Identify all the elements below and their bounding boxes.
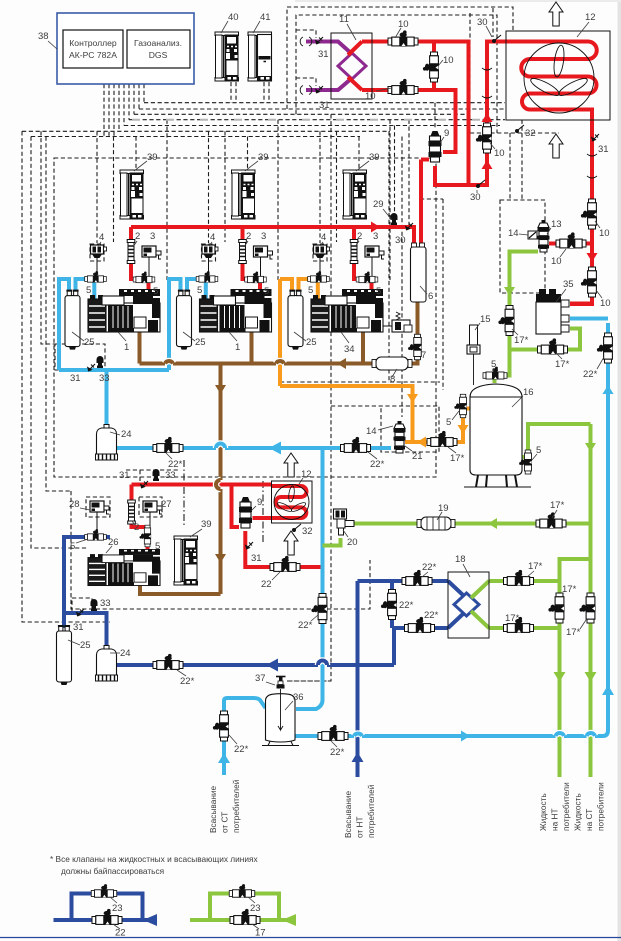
sensor 32 condenser [515, 125, 536, 139]
gas analyzer DGS box [127, 30, 190, 68]
svg-text:Всасывание: Всасывание [208, 785, 218, 833]
wire drop mid B [401, 137, 403, 418]
svg-text:25: 25 [306, 337, 317, 348]
filter drier 19 [417, 503, 455, 530]
oil valve 7 [408, 334, 426, 361]
svg-text:25: 25 [195, 337, 206, 348]
arrow blue right lower main [461, 731, 470, 742]
arrow red up x487 b [482, 160, 493, 169]
svg-text:13: 13 [551, 219, 562, 230]
svg-text:22*: 22* [583, 369, 598, 380]
ball valve 22* injection line [341, 437, 385, 470]
pipe g1 discharge [131, 227, 149, 296]
sensor 29 discharge header [373, 199, 398, 225]
svg-text:19: 19 [438, 503, 449, 514]
navy ball valve 22* [153, 654, 195, 687]
svg-text:17*: 17* [528, 561, 543, 572]
svg-text:5: 5 [86, 285, 91, 296]
pipe LT riser [132, 485, 148, 550]
svg-text:4: 4 [210, 232, 215, 243]
svg-text:22*: 22* [330, 747, 345, 758]
navy valve 22* hx18 bottom [405, 610, 439, 633]
svg-text:17*: 17* [550, 500, 565, 511]
compressor 1 [88, 289, 160, 353]
svg-text:40: 40 [228, 12, 239, 23]
svg-text:Жидкость: Жидкость [573, 793, 583, 831]
arrow brown left header [337, 358, 346, 369]
svg-text:26: 26 [108, 537, 119, 548]
arrow green left drier [488, 518, 497, 529]
svg-text:35: 35 [563, 279, 574, 290]
pipe g3 suction riser [280, 279, 292, 386]
wire drop mid C [408, 120, 410, 226]
pipe orange rcvr branch [405, 409, 470, 443]
svg-text:33: 33 [99, 373, 110, 384]
BROWN pipes [140, 301, 418, 594]
pipe drier line [355, 522, 591, 526]
svg-text:1: 1 [235, 342, 240, 353]
green valve 17* hx18 bottom [504, 613, 534, 633]
wire drop mid A [389, 131, 440, 382]
svg-text:потребителей: потребителей [366, 784, 376, 838]
svg-text:30: 30 [470, 192, 481, 203]
wire controller drop 1 [103, 84, 105, 137]
svg-text:33: 33 [100, 598, 111, 609]
svg-text:33: 33 [165, 470, 176, 481]
flow arrows on pipes [215, 113, 614, 763]
wire bus line 1 [144, 102, 505, 104]
LT header solenoid 33 [153, 469, 176, 481]
wire drop g3 psw [389, 120, 391, 280]
svg-text:6: 6 [428, 291, 433, 302]
VFD 39 group1 [120, 152, 158, 219]
wire vessel37 stub [287, 680, 331, 682]
LT pressure switch 28 [69, 499, 109, 532]
oil reservoir 24 MT [96, 425, 132, 461]
arrow green down inj [504, 287, 515, 296]
green valve 17* hx18 top [504, 561, 543, 586]
ball valve 22* MT suction main [153, 437, 183, 470]
pipe hx18 top green [489, 579, 560, 583]
svg-text:38: 38 [38, 31, 49, 42]
sensor 30 lower [470, 180, 485, 203]
ball valve 10 hx11 bottom [365, 79, 418, 102]
svg-text:10: 10 [600, 298, 611, 309]
svg-text:23: 23 [112, 903, 123, 914]
arrow green down x590 [585, 443, 596, 452]
pipes get drawn before components [59, 42, 614, 778]
svg-text:31: 31 [318, 49, 329, 60]
svg-text:25: 25 [80, 640, 91, 651]
wire drop g2 sol4 [202, 131, 216, 261]
suction valve 5 g2 [196, 271, 218, 296]
pipe hx18 top line [358, 579, 449, 583]
arrow green down b [585, 672, 597, 682]
svg-text:22*: 22* [399, 600, 414, 611]
LT header sensor 31 [119, 470, 148, 489]
RED pipes [131, 42, 597, 568]
vibration absorber 2 g3 [350, 231, 362, 264]
pipe MT suction main [114, 446, 391, 450]
blue valve 22* ct riser [213, 711, 249, 755]
svg-text:39: 39 [201, 519, 212, 530]
pipe purple top [306, 42, 352, 55]
pipe LT discharge header [132, 483, 272, 487]
svg-text:потребители: потребители [561, 782, 571, 831]
wire drop to MT vfd3 [358, 137, 360, 171]
wire controller drop 4 [118, 84, 120, 131]
svg-text:31: 31 [598, 144, 609, 155]
wire drop g2 psw [277, 120, 279, 280]
svg-text:31: 31 [70, 373, 81, 384]
wire drop mid D [394, 126, 396, 214]
wire controller drop 7 [133, 84, 135, 114]
arrow orange down x412 [407, 394, 418, 403]
suction valve 5 g1 [85, 271, 107, 296]
heat exchanger 35 [536, 279, 574, 334]
sensor 31 purple bottom [315, 86, 330, 111]
wire controller drop 3 [113, 84, 115, 137]
ball valve 10 vertical x434 [423, 52, 454, 82]
pipe chk9 bypass [232, 485, 240, 528]
sight glass 15 [467, 314, 491, 385]
arrow blue left main [269, 442, 281, 455]
wire controller drop 6 [128, 84, 130, 120]
svg-text:18: 18 [455, 554, 466, 565]
wire bus line 4 [129, 119, 505, 121]
svg-text:21: 21 [412, 451, 423, 462]
receiver 16 [464, 384, 534, 487]
wire VFD40 leads [231, 82, 236, 103]
controller cabinet box [38, 13, 194, 84]
svg-text:3: 3 [261, 231, 266, 242]
svg-text:22*: 22* [298, 620, 313, 631]
svg-text:9: 9 [444, 128, 449, 139]
svg-text:5: 5 [264, 286, 269, 297]
pipe HX11 top red [348, 42, 490, 186]
pipe g3 discharge [354, 227, 372, 296]
wire LT dashdot [183, 460, 185, 527]
arrow red header right [371, 222, 380, 233]
condenser 12 [506, 12, 610, 120]
pipe oil g3 stub [361, 324, 365, 364]
liquid separator 36 [262, 689, 304, 746]
svg-text:31: 31 [119, 470, 130, 481]
arrow brown down2 [215, 554, 226, 563]
svg-text:АК-РС 782А: АК-РС 782А [69, 50, 117, 60]
detail valve 22 navy [92, 909, 126, 939]
solenoid 33 suction header [97, 356, 110, 384]
solenoid valve 4 g1 [91, 232, 107, 274]
svg-text:2: 2 [134, 522, 139, 533]
arrow orange down x461 [458, 425, 469, 434]
svg-text:22*: 22* [168, 459, 183, 470]
bridge brown over orange [276, 361, 284, 363]
fan blades [529, 45, 589, 99]
pipe bridges [165, 361, 595, 736]
heat exchanger 11 box [331, 14, 372, 99]
bridge brown over blue g2 [165, 361, 173, 363]
wire controller drop 9 [143, 84, 145, 103]
detail valve 23 navy [91, 884, 122, 914]
VFD 39 group2 [232, 152, 269, 219]
pipe chk9 lower [245, 531, 322, 567]
pressure switch 3 g3 [365, 231, 384, 277]
svg-text:17*: 17* [514, 335, 529, 346]
wire left drop C [41, 131, 55, 344]
svg-text:27: 27 [161, 499, 172, 510]
wire rack enclosure [54, 158, 436, 477]
svg-text:22*: 22* [234, 744, 249, 755]
check valve 9 main [429, 128, 450, 162]
svg-text:17*: 17* [555, 359, 570, 370]
expansion valve 13 [538, 219, 562, 252]
wire drop g1 sol4 [90, 131, 104, 261]
pipe vessel36 out [295, 323, 608, 736]
arrow blue up x608 a [603, 385, 614, 394]
svg-text:41: 41 [260, 12, 271, 23]
svg-text:потребителей: потребителей [231, 779, 241, 833]
liquid out valve 5 receiver right [519, 445, 541, 474]
ball valve 17* vertical x509 [498, 306, 528, 347]
pipe 13 outlet [501, 252, 538, 376]
ball valve 10 vertical upper x592 [581, 199, 610, 239]
ball valve 10 vertical x487 [476, 123, 505, 159]
check valve 9 LT [239, 497, 262, 528]
green valve 17* vert right [566, 593, 596, 638]
svg-text:7: 7 [421, 350, 426, 361]
arrow orange left into21 [417, 437, 426, 448]
svg-text:на НТ: на НТ [550, 808, 560, 831]
sensor 31 purple top [315, 37, 329, 60]
pipe g1 acc out [76, 279, 87, 295]
svg-text:5: 5 [153, 286, 158, 297]
pipe orange header [280, 386, 413, 442]
suction accumulator 25 g3 [288, 290, 317, 350]
suction valve 5 g3 [308, 271, 330, 296]
bridge blue over green2 [587, 733, 596, 736]
svg-text:34: 34 [344, 344, 355, 355]
wire bus line 6 [22, 130, 390, 132]
svg-text:потребители: потребители [596, 782, 606, 831]
svg-text:37: 37 [255, 673, 266, 684]
suction accumulator 25 g1 [65, 290, 95, 350]
bridge blue over green1 [556, 733, 565, 736]
discharge valve 5 g2 [245, 272, 270, 297]
pipe break x487 [482, 68, 492, 98]
svg-text:15: 15 [480, 314, 491, 325]
detail green piping [190, 894, 296, 921]
hx18 navy diamond [454, 593, 479, 616]
svg-text:Контроллер: Контроллер [69, 38, 117, 48]
oil return valve 5 orange [446, 394, 467, 428]
pipe g1 comp in [94, 279, 103, 299]
oil filter 8 [372, 357, 412, 385]
pipe LT suction valve run [64, 537, 107, 649]
wire bus line 7 [31, 136, 360, 138]
wire bus line 5 [124, 125, 500, 127]
pressure switch 3 g1 [142, 231, 161, 277]
pipe nt main [117, 663, 394, 667]
pipe subcool branch [510, 329, 581, 350]
pipe hx18 bottom green [489, 626, 560, 630]
VFD drive 40 [215, 12, 239, 81]
pipe oil LT drop [140, 364, 221, 595]
arrow brown down [215, 385, 226, 394]
nt liquid label [538, 782, 571, 831]
wire controller drop 5 [123, 84, 125, 126]
ball valve 17* subcool branch [538, 338, 570, 370]
pipe oil g2 stub [250, 324, 254, 364]
pipe hx35 red stub [570, 296, 592, 304]
green valve 17* vert left [548, 584, 576, 623]
svg-text:23: 23 [250, 903, 261, 914]
sensor 31 suction header [70, 364, 95, 384]
hx18 green diagonals [471, 581, 489, 628]
pipe nt riser [356, 581, 360, 777]
svg-text:10: 10 [365, 91, 376, 102]
svg-text:36: 36 [293, 692, 304, 703]
svg-text:11: 11 [339, 14, 349, 25]
pipe liquid link [560, 559, 591, 777]
heat exchanger 18 box [448, 554, 489, 638]
svg-text:16: 16 [523, 387, 534, 398]
svg-text:22*: 22* [424, 610, 439, 621]
svg-text:5: 5 [155, 541, 160, 552]
svg-text:28: 28 [69, 499, 80, 510]
svg-text:30: 30 [395, 235, 406, 246]
ball valve 22* vertical x608 [583, 333, 613, 380]
bridge blue over navy [354, 734, 362, 736]
svg-text:39: 39 [147, 152, 158, 163]
ball valve 10 vertical lower x592 [581, 267, 611, 309]
pipe MT suction header [59, 370, 169, 429]
wire top right inner loop [296, 15, 497, 133]
wire left drop D [46, 137, 71, 492]
bridge brown over LT red [216, 480, 221, 489]
pipe g3 acc out [299, 279, 310, 295]
suction accumulator 25 g2 [177, 290, 206, 350]
LT VFD 39 [174, 519, 212, 585]
svg-text:10: 10 [599, 228, 610, 239]
svg-text:3: 3 [373, 231, 378, 242]
GREEN pipes [323, 252, 591, 778]
vibration absorber 2 g1 [127, 231, 140, 264]
LT pressure switch 27 [143, 499, 172, 528]
svg-text:2: 2 [135, 231, 140, 242]
PURPLE pipes (HX11 inlet) [306, 42, 352, 91]
solenoid valve 4 g2 [202, 232, 218, 274]
svg-text:5: 5 [70, 541, 75, 552]
pipe oil header [140, 324, 373, 364]
svg-text:31: 31 [319, 100, 330, 111]
gray dashed wire [132, 119, 505, 121]
navy valve 22* hx18 top [402, 562, 437, 586]
svg-text:14: 14 [508, 228, 519, 239]
svg-text:5: 5 [197, 285, 202, 296]
svg-text:10: 10 [551, 256, 562, 267]
discharge valve 5 g3 [356, 272, 381, 297]
compressor 34 [311, 289, 383, 355]
ct liquid label [573, 782, 606, 831]
svg-text:* Все клапаны на жидкостных и: * Все клапаны на жидкостных и всасывающи… [50, 854, 258, 864]
nt suction label [343, 784, 376, 838]
svg-text:24: 24 [121, 429, 132, 440]
sensor 32 coil [292, 524, 313, 537]
wire controller drop 2 [108, 84, 110, 137]
detail navy piping [54, 894, 158, 921]
svg-text:Всасывание: Всасывание [343, 790, 353, 838]
svg-text:3: 3 [150, 231, 155, 242]
LT compressor 26 [88, 537, 160, 586]
svg-text:5: 5 [446, 417, 451, 428]
arrow green down a [554, 672, 566, 682]
wire drop sep region [420, 199, 443, 390]
svg-text:31: 31 [73, 622, 84, 633]
pipe g2 comp in [206, 279, 215, 299]
arrow blue up x608 b [602, 685, 614, 695]
wire HX11 sensor stub bottom [296, 78, 316, 86]
LT discharge valve 5 [140, 525, 161, 552]
svg-text:5: 5 [308, 285, 313, 296]
svg-text:10: 10 [398, 19, 409, 30]
svg-text:2: 2 [357, 231, 362, 242]
pipe break purple bottom [300, 86, 312, 95]
pipe hx18 bottom line [394, 628, 448, 665]
LT suction accumulator 25 [57, 625, 91, 685]
wire left drop B [31, 137, 88, 549]
detail green arrow [282, 914, 296, 926]
pipe 13 branch [549, 242, 592, 246]
pipe MT discharge header [131, 227, 414, 248]
LT coil unit 12 [272, 469, 313, 523]
svg-text:1: 1 [124, 342, 129, 353]
svg-text:4: 4 [99, 232, 104, 243]
svg-text:22*: 22* [370, 459, 385, 470]
sensor 31 condenser outlet [591, 134, 609, 155]
wire VFD41 leads [264, 82, 269, 103]
pipe LT suction into comp [105, 535, 110, 539]
oil pressure regulator [377, 312, 412, 332]
relief valve 37 [255, 673, 286, 689]
pipe g3 comp in [309, 279, 318, 299]
navy solenoid 33 [91, 598, 111, 611]
svg-text:10: 10 [494, 148, 505, 159]
wire drop valve9 top [434, 103, 436, 129]
svg-text:39: 39 [369, 152, 380, 163]
svg-text:20: 20 [347, 537, 358, 548]
svg-text:17*: 17* [566, 627, 581, 638]
ball valve 22 LT outlet [261, 556, 300, 590]
svg-text:должны байпассироваться: должны байпассироваться [61, 866, 164, 876]
svg-text:от НТ: от НТ [355, 816, 365, 838]
hx18 navy diagonals [448, 581, 464, 628]
liquid valve 5 receiver top [483, 359, 507, 380]
wire LT psw boxes [86, 497, 162, 517]
wire LT header sens stub [126, 470, 180, 482]
svg-text:22: 22 [115, 928, 126, 939]
svg-text:5: 5 [376, 286, 381, 297]
blue valve 22* drop [298, 594, 328, 632]
VFD 39 group3 [343, 152, 380, 219]
wire drop20 [287, 114, 331, 681]
bridge navy over blue [318, 661, 327, 665]
arrow red down x592 [587, 253, 598, 262]
pipe HX11 bottom red [348, 42, 456, 153]
injection valve 21 [366, 421, 423, 462]
wire 21 box top [331, 406, 439, 452]
svg-text:DGS: DGS [149, 50, 168, 60]
